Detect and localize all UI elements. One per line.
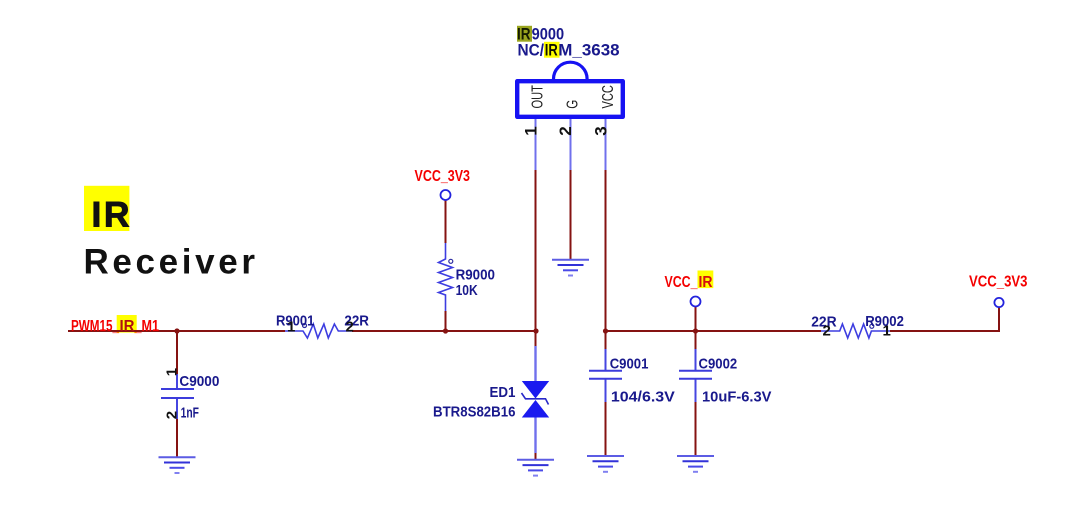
svg-text:VCC_: VCC_ [665, 274, 699, 291]
svg-text:C9000: C9000 [179, 373, 219, 390]
svg-text:VCC: VCC [600, 85, 617, 108]
svg-text:IR: IR [545, 40, 558, 59]
svg-text:1: 1 [521, 126, 540, 135]
svg-text:C9002: C9002 [699, 355, 738, 372]
svg-text:NC/: NC/ [518, 40, 545, 59]
svg-text:1nF: 1nF [181, 404, 199, 421]
svg-text:2: 2 [556, 126, 575, 135]
svg-text:BTR8S82B16: BTR8S82B16 [433, 403, 516, 420]
svg-text:IR: IR [120, 318, 135, 335]
svg-text:3: 3 [592, 126, 611, 135]
svg-text:1: 1 [287, 319, 295, 336]
svg-text:M_3638: M_3638 [558, 40, 619, 59]
svg-text:104/6.3V: 104/6.3V [611, 389, 675, 406]
svg-text:2: 2 [346, 319, 354, 336]
svg-text:Receiver: Receiver [84, 243, 256, 282]
svg-text:2: 2 [823, 322, 831, 339]
svg-text:G: G [564, 100, 581, 109]
svg-text:10uF-6.3V: 10uF-6.3V [702, 389, 772, 406]
svg-text:IR: IR [92, 195, 130, 235]
svg-text:_M1: _M1 [134, 318, 159, 335]
svg-text:1: 1 [164, 368, 181, 376]
svg-text:ED1: ED1 [490, 384, 516, 401]
svg-text:1: 1 [883, 322, 891, 339]
svg-text:PWM15_: PWM15_ [71, 318, 120, 335]
svg-text:IR: IR [699, 274, 713, 291]
svg-text:C9001: C9001 [610, 355, 649, 372]
svg-text:OUT: OUT [529, 85, 546, 109]
svg-text:10K: 10K [456, 282, 478, 299]
svg-text:VCC_3V3: VCC_3V3 [969, 273, 1028, 290]
svg-text:2: 2 [164, 411, 181, 419]
svg-text:VCC_3V3: VCC_3V3 [415, 168, 471, 185]
